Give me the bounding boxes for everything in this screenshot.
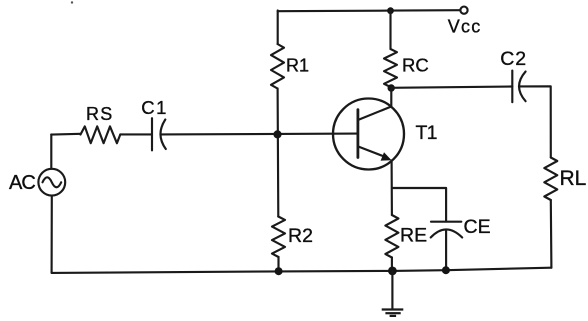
- capacitor C1: [151, 118, 153, 150]
- node CE bottom: [442, 266, 450, 274]
- Vcc terminal: [460, 7, 467, 14]
- node collector: [388, 84, 395, 91]
- wire R1 to base node to R2: [277, 89, 280, 217]
- svg-text:R1: R1: [286, 56, 309, 76]
- wire emitter down: [391, 161, 393, 216]
- resistor RE: [385, 215, 398, 258]
- resistor R1: [271, 44, 284, 89]
- resistor RC: [384, 49, 397, 87]
- wire RE bottom: [391, 258, 393, 271]
- resistor RS: [81, 126, 121, 143]
- wire source bottom: [51, 196, 53, 273]
- resistor RL: [544, 158, 557, 201]
- source AC: [38, 169, 65, 196]
- svg-text:Vcc: Vcc: [448, 17, 482, 37]
- wire R1 top: [277, 11, 279, 45]
- node top junction: [387, 7, 394, 14]
- svg-text:RC: RC: [402, 55, 429, 76]
- capacitor C2: [511, 71, 513, 103]
- svg-text:RS: RS: [86, 104, 113, 124]
- svg-text:C2: C2: [500, 48, 527, 70]
- wire RS to C1: [120, 133, 152, 135]
- wire source top: [50, 134, 52, 168]
- wire bottom rail: [52, 268, 552, 273]
- wire emitter branch to CE: [392, 188, 446, 222]
- wire RC top: [389, 11, 391, 49]
- svg-text:R2: R2: [288, 225, 313, 247]
- svg-text:T1: T1: [416, 122, 437, 144]
- wire CE bottom: [445, 231, 447, 271]
- wire collector to C2: [391, 87, 513, 88]
- svg-text:AC: AC: [9, 172, 35, 194]
- wire C1 to base: [161, 133, 359, 136]
- node R2 bottom: [275, 267, 283, 275]
- wire R2 bottom: [277, 257, 279, 272]
- svg-text:C1: C1: [141, 97, 168, 118]
- svg-text:RL: RL: [560, 167, 587, 190]
- ground: [382, 271, 404, 316]
- wire input left segment: [51, 133, 80, 136]
- capacitor CE: [431, 221, 461, 223]
- wire RL bottom: [550, 200, 553, 268]
- node RE bottom: [388, 267, 397, 276]
- svg-text:CE: CE: [464, 216, 491, 238]
- svg-text:RE: RE: [400, 225, 427, 247]
- wire top rail: [278, 10, 461, 11]
- transistor T1: [333, 88, 404, 170]
- node base junction: [273, 130, 281, 138]
- resistor R2: [272, 217, 285, 258]
- wire C2 to RL: [519, 86, 551, 157]
